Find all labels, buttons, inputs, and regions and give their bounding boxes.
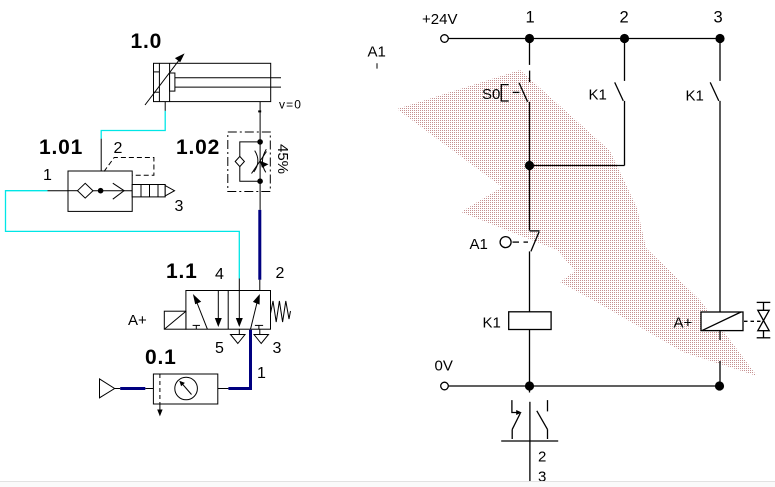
svg-text:2: 2 [538,449,546,466]
svg-text:1.1: 1.1 [166,260,198,283]
relay coil K1 [509,312,551,386]
svg-text:45%: 45% [274,144,291,174]
svg-text:1.02: 1.02 [176,136,220,159]
svg-text:A1: A1 [368,44,386,61]
cylinder left port stub [164,102,166,111]
svg-text:2: 2 [276,265,285,282]
switch S0 [501,39,529,166]
limit switch A1 [500,166,539,312]
svg-text:1.01: 1.01 [39,136,83,159]
valve link symbol [757,302,771,337]
quick exhaust valve 1.01 [68,158,175,212]
svg-text:2: 2 [114,140,123,157]
svg-text:2: 2 [620,9,629,27]
svg-text:A+: A+ [128,312,147,329]
svg-text:0.1: 0.1 [145,346,177,369]
svg-text:1: 1 [43,167,52,184]
svg-text:1: 1 [526,9,535,27]
contact K1 column3 [710,39,720,312]
svg-text:3: 3 [175,198,184,215]
svg-text:1: 1 [257,365,266,382]
compressed air source [100,379,121,398]
wire supply to port1 (dark blue) [228,330,250,389]
exhaust port 5 [231,329,246,343]
wire port4 stub [238,279,240,291]
node col1 bottom [525,381,534,390]
v=0 marker [258,102,261,132]
0V rail [441,382,720,390]
wire port2 stub [259,280,261,291]
window edge [0,481,775,483]
svg-text:K1: K1 [589,87,607,104]
svg-text:5: 5 [215,340,224,357]
svg-text:+24V: +24V [422,11,457,28]
+24V supply rail [441,35,720,43]
wire port1 stub [48,190,69,192]
svg-text:A1: A1 [470,236,488,253]
svg-text:1.0: 1.0 [131,30,163,53]
svg-text:3: 3 [273,340,282,357]
svg-text:K1: K1 [686,88,704,105]
relay contact mirror [501,389,558,487]
directional valve 1.1 [164,291,290,330]
svg-text:3: 3 [714,9,723,27]
node col3 bottom [715,381,724,390]
wire source to 0.1 (dark blue) [120,387,145,390]
air service unit 0.1 [153,374,217,416]
watermark lightning bolt (dotted) [397,70,757,376]
svg-text:v=0: v=0 [279,98,302,112]
wire 1.02 to 1.1 port2 (dark blue) [258,210,261,280]
svg-text:S0: S0 [482,86,500,103]
node junction col1 [525,161,534,170]
wire 1.01 to 1.1 port4 (cyan) [6,191,240,279]
contact K1 column2 [530,39,625,166]
svg-text:K1: K1 [483,315,501,332]
wire stub to 0.1 [218,388,229,390]
svg-text:A+: A+ [674,315,693,332]
svg-text:4: 4 [215,266,224,283]
cylinder 1.0 [145,53,281,105]
flow control valve 1.02 [228,132,270,210]
wire stub left of 0.1 [145,388,153,390]
wire cylinder to 1.01 pilot (cyan) [101,111,165,139]
cursor tick [376,63,378,68]
exhaust port 3 [254,329,269,343]
wire pilot stub [100,139,102,191]
solenoid coil A+ [701,312,761,386]
svg-text:0V: 0V [435,358,453,375]
